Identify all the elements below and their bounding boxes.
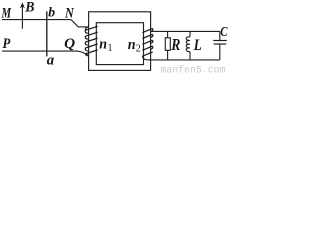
svg-text:L: L [193, 37, 202, 54]
primary coil n1 [85, 26, 97, 56]
wire Q to n1 bottom [77, 51, 88, 56]
svg-text:B: B [24, 0, 34, 15]
rod ab [46, 11, 48, 56]
svg-text:n: n [99, 37, 107, 53]
svg-text:P: P [3, 36, 11, 52]
svg-text:Q: Q [64, 36, 75, 52]
svg-text:2: 2 [136, 43, 141, 54]
bottom rail P-Q [2, 50, 77, 52]
top rail M-N [2, 19, 71, 21]
secondary coil n2 [142, 28, 152, 60]
svg-text:a: a [47, 52, 55, 68]
svg-text:C: C [220, 25, 228, 40]
transformer core outer [89, 12, 151, 71]
secondary top lead [151, 30, 220, 32]
secondary bottom lead [148, 59, 220, 61]
svg-text:1: 1 [108, 43, 113, 54]
svg-text:R: R [170, 35, 180, 54]
transformer core inner [96, 23, 143, 65]
svg-text:manfen5.com: manfen5.com [161, 65, 226, 76]
wire N to n1 top [71, 20, 88, 27]
svg-text:n: n [128, 37, 136, 53]
inductor L [186, 31, 190, 60]
capacitor C [213, 31, 227, 60]
resistor R [165, 31, 170, 60]
svg-text:N: N [64, 6, 75, 22]
svg-text:b: b [48, 5, 55, 20]
field arrow B [20, 2, 25, 29]
svg-text:M: M [1, 6, 12, 22]
